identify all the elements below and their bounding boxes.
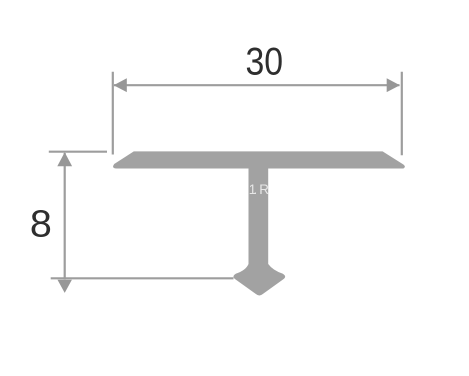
T-profile: bottom foot — [233, 264, 285, 295]
dimension 8: dimension line — [64, 153, 66, 280]
dimension 30: right arrowhead — [387, 78, 400, 92]
dimension 30: left extension line — [112, 72, 114, 155]
T-profile: stem — [249, 167, 269, 270]
dimension 30: dimension line — [114, 84, 400, 86]
svg-text:1.R: 1.R — [249, 182, 269, 197]
dimension 30: right extension line — [401, 72, 403, 155]
svg-text:8: 8 — [30, 203, 52, 245]
svg-text:30: 30 — [246, 39, 284, 83]
dimension 8: bottom arrowhead — [58, 280, 72, 293]
T-profile: top flange — [113, 151, 405, 168]
dimension 8: top extension line — [49, 151, 107, 153]
dimension 8: bottom extension line — [51, 277, 234, 279]
dimension 30: left arrowhead — [114, 78, 127, 92]
dimension 8: top arrowhead — [57, 152, 72, 166]
